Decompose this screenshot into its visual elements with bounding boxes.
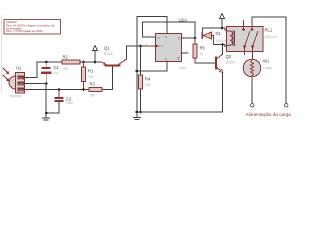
svg-text:1k: 1k	[200, 52, 204, 56]
svg-text:OUT: OUT	[18, 83, 24, 86]
note box	[4, 20, 61, 35]
node R1 bottom	[82, 88, 85, 91]
node ground mid	[136, 111, 139, 114]
svg-text:S: S	[165, 35, 167, 39]
svg-text:10k: 10k	[90, 93, 96, 97]
svg-text:D1: D1	[216, 31, 222, 36]
pin relay NO	[251, 24, 253, 30]
wire Qbar stub	[182, 52, 189, 54]
wire relay common stub	[244, 47, 246, 55]
svg-text:10k: 10k	[88, 75, 94, 79]
wire top rail left	[37, 61, 62, 63]
node ground left	[45, 112, 48, 115]
node R4 ground	[139, 111, 142, 114]
svg-text:RL1: RL1	[265, 27, 273, 32]
node CLK / R4 junction	[139, 45, 142, 48]
wire VCC2 to D1 and coil top	[202, 28, 226, 30]
svg-text:W1: W1	[263, 59, 270, 64]
svg-text:10k: 10k	[145, 83, 151, 87]
node Q / R5 junction	[194, 37, 197, 40]
sheet frame line	[1, 15, 3, 92]
capacitor C1	[42, 62, 60, 84]
svg-text:Q1: Q1	[104, 46, 110, 51]
node pin2/C1 junction	[45, 82, 48, 85]
relay RL1	[227, 27, 278, 52]
svg-text:U1: U1	[16, 66, 22, 71]
resistor R3	[89, 82, 102, 98]
terminal load 2	[285, 102, 288, 107]
node C1 top junction	[45, 61, 48, 64]
wire Q output	[182, 37, 196, 39]
svg-text:4013: 4013	[179, 66, 186, 70]
terminal load 1	[251, 102, 254, 107]
svg-text:PIR008: PIR008	[10, 95, 21, 99]
wire D feedback loop	[143, 22, 196, 38]
node R1 top	[82, 61, 85, 64]
svg-text:BC337: BC337	[226, 61, 236, 65]
svg-text:100n: 100n	[66, 101, 73, 105]
wire R pin	[137, 62, 167, 72]
diode D1	[202, 28, 227, 45]
wire Q1 collector to CLK	[127, 46, 156, 59]
svg-text:R5: R5	[200, 45, 206, 50]
svg-text:R1: R1	[88, 68, 94, 73]
wire R3 to Q1 base	[102, 67, 113, 90]
svg-text:Carga: Carga	[263, 66, 272, 70]
svg-text:Pino 7 (VSS) ligado ao GND: Pino 7 (VSS) ligado ao GND	[6, 29, 42, 33]
resistor R1	[81, 62, 94, 90]
node collector / D1 / coil junction	[221, 43, 224, 46]
wire R5 to Q2 base	[195, 62, 215, 64]
wire relay NO contact to right terminal	[252, 17, 286, 103]
svg-text:47k: 47k	[63, 67, 69, 71]
wire U1 pin3 signal rail	[25, 89, 89, 91]
wire D1 anode to junction to coil	[214, 45, 227, 47]
svg-text:R4: R4	[145, 76, 151, 81]
resistor R4	[138, 75, 151, 89]
wire C1 node down to ground rail	[45, 84, 47, 114]
wire lamp to terminal	[251, 77, 253, 103]
node VCC stem	[94, 61, 97, 64]
svg-text:R3: R3	[90, 82, 96, 87]
capacitor C2	[55, 90, 74, 106]
pin relay pole 2	[252, 47, 254, 53]
svg-text:R2: R2	[63, 54, 69, 59]
svg-text:C1: C1	[54, 65, 60, 70]
svg-text:VCC: VCC	[18, 77, 23, 80]
resistor R2	[62, 54, 80, 71]
node VCC2 stem	[221, 27, 224, 30]
svg-text:47u: 47u	[54, 71, 60, 75]
wire top rail right of R2	[80, 61, 102, 63]
ground symbol mid	[133, 112, 140, 120]
transistor Q2	[215, 54, 236, 73]
resistor R5	[193, 38, 206, 63]
svg-text:1N4148: 1N4148	[216, 39, 227, 43]
node R to S wire	[136, 70, 139, 73]
svg-text:Q2: Q2	[226, 54, 232, 59]
wire relay pole 2 to lamp	[252, 47, 254, 60]
flip-flop U2A	[146, 18, 189, 70]
wire R4 riser	[140, 46, 142, 75]
supply arrow VCC 1	[92, 46, 97, 63]
sensor U1	[9, 66, 31, 99]
node C2 top	[58, 88, 61, 91]
wire ground rail left to C2	[46, 102, 59, 113]
ground symbol left	[43, 113, 50, 120]
svg-text:GND: GND	[18, 89, 24, 92]
wire R4 bottom to ground rail	[140, 89, 142, 112]
svg-text:Alimentação da carga: Alimentação da carga	[246, 112, 292, 117]
lamp W1	[243, 59, 272, 77]
wire ground rail	[137, 73, 223, 112]
wire U1 pin1 to VCC node	[25, 62, 37, 78]
svg-text:BC557: BC557	[104, 52, 114, 56]
transistor Q1	[102, 46, 127, 67]
wire S pin loop	[137, 17, 167, 113]
supply arrow VCC 2	[219, 14, 224, 29]
wire U1 pin2 to C1 bottom	[25, 83, 47, 85]
pin lamp bottom	[251, 77, 253, 81]
svg-text:REL2-IH: REL2-IH	[265, 35, 278, 39]
wire relay NC stub	[243, 21, 245, 30]
IR ray arrows	[3, 68, 8, 80]
wire Q2 collector riser	[222, 45, 224, 55]
